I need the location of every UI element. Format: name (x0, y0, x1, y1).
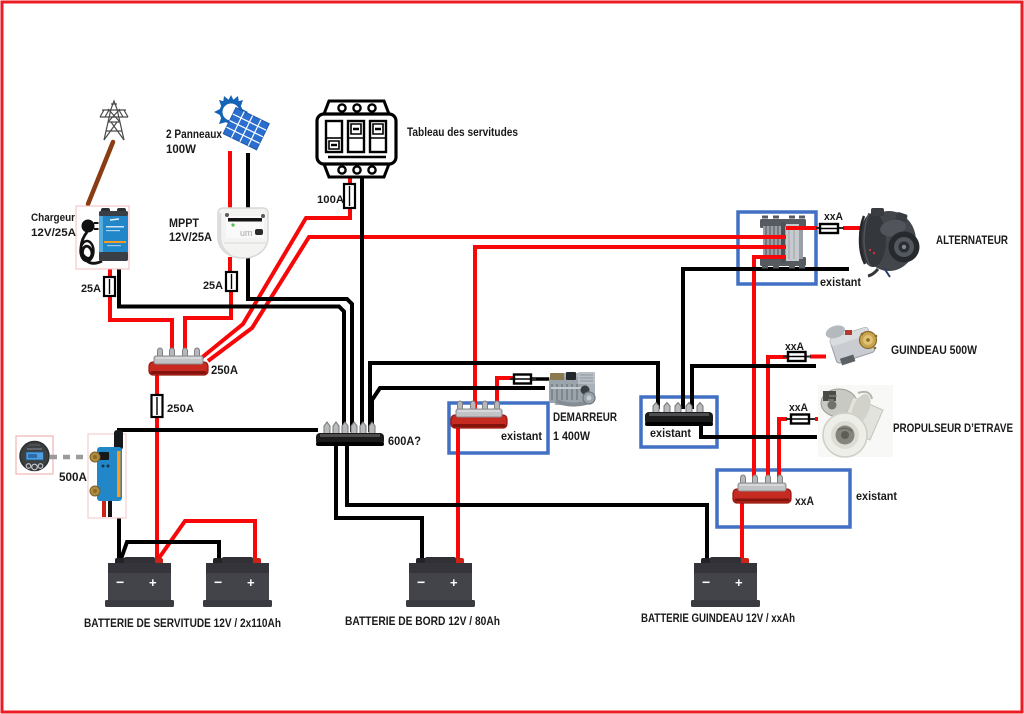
wire: tableau positive via 100A fuse to 250A bus (200, 176, 350, 359)
wire: MPPT positive to 25A fuse to 250A bus (185, 257, 231, 362)
wire: guindeau bus to batterie guindeau positive (740, 502, 744, 560)
alternator isolator device (760, 217, 806, 267)
svg-text:12V/25A: 12V/25A (169, 232, 212, 244)
wire: red connections on isolator (754, 228, 817, 257)
chargeur plug and cable (82, 220, 95, 233)
svg-text:existant: existant (820, 277, 861, 289)
svg-text:12V/25A: 12V/25A (31, 227, 76, 239)
wire: solar panel positive to MPPT (228, 151, 232, 212)
svg-text:+: + (735, 575, 743, 590)
demarreur engine (549, 372, 595, 405)
blue box: guindeau bus bar (existant) (717, 470, 850, 527)
dashed link gauge to shunt (50, 455, 92, 460)
wire: 600A bus to black existant bus (370, 363, 658, 432)
wire: isolator to guindeau bus (754, 257, 767, 494)
svg-text:+: + (247, 575, 255, 590)
svg-text:500A: 500A (59, 472, 87, 484)
wire: charger positive to 25A fuse to 250A bus (110, 258, 172, 362)
wire: solar panel negative to MPPT (246, 153, 250, 212)
svg-text:BATTERIE DE SERVITUDE 12V / 2x: BATTERIE DE SERVITUDE 12V / 2x110Ah (84, 618, 281, 630)
svg-text:1 400W: 1 400W (553, 431, 590, 443)
tableau des servitudes breaker panel (317, 101, 396, 177)
solar sun (214, 95, 248, 129)
svg-text:xxA: xxA (785, 341, 804, 353)
wire: red existant bus to batterie de bord positive (456, 426, 460, 560)
wire: propulseur fuse to propulseur (815, 417, 827, 421)
batterie guindeau (691, 557, 760, 607)
svg-text:−: − (702, 574, 710, 590)
wire: propulseur return to black existant bus (701, 424, 817, 437)
wire: guindeau bus to propulseur xxA fuse (779, 419, 787, 494)
svg-text:ALTERNATEUR: ALTERNATEUR (936, 235, 1009, 247)
wire: 600A bus to batterie de bord negative (336, 444, 422, 560)
alternateur (860, 208, 920, 277)
red existant bus bar (bord) (451, 401, 507, 428)
svg-text:25A: 25A (203, 280, 223, 292)
svg-text:25A: 25A (81, 283, 101, 295)
svg-text:250A: 250A (167, 403, 194, 415)
svg-text:100W: 100W (166, 144, 196, 156)
fuse 250A (152, 395, 163, 417)
fuse 100A (344, 184, 355, 208)
wire: charger negative to 600A bus (119, 259, 344, 432)
wire: jumper batterie servitude positive (159, 521, 255, 560)
fuse xxA guindeau (783, 352, 811, 361)
wire: alternator isolator to red existant bus bord (475, 247, 767, 416)
svg-text:xxA: xxA (795, 496, 814, 508)
wire: alternator ground to black existant bus (683, 269, 849, 409)
svg-text:BATTERIE GUINDEAU 12V / xxAh: BATTERIE GUINDEAU 12V / xxAh (641, 613, 795, 625)
fuse xxA alternator (816, 224, 844, 233)
svg-text:existant: existant (501, 431, 542, 443)
svg-text:−: − (214, 574, 222, 590)
svg-text:100A: 100A (317, 194, 344, 206)
wire: 600A bus to demarreur engine ground (372, 388, 545, 432)
wire: xxA fuse to alternateur (843, 226, 862, 230)
wire: red existant bus to demarreur fuse (497, 378, 514, 414)
blue box: red bus bar bord (existant) (449, 403, 548, 453)
wire: tableau negative to 600A bus (360, 176, 364, 432)
svg-text:Chargeur: Chargeur (31, 212, 76, 224)
smart shunt blue device (88, 430, 126, 518)
batterie servitude 2 (203, 557, 272, 607)
chargeur blue unit (101, 208, 110, 213)
black existant bus bar (645, 403, 713, 426)
wire: alternator isolator to 250A bus (208, 237, 765, 361)
svg-text:600A?: 600A? (388, 434, 421, 448)
wire: guindeau return to black existant bus (692, 366, 816, 409)
svg-text:DEMARREUR: DEMARREUR (553, 412, 618, 424)
chargeur box (76, 206, 129, 269)
propulseur d'etrave (818, 385, 893, 457)
fuse xxA propulseur (786, 415, 815, 424)
wire: demarreur fuse to engine (530, 377, 549, 381)
svg-text:250A: 250A (211, 365, 238, 377)
blue box: alternator isolator (existant) (738, 212, 816, 284)
wire: jumper batterie servitude negative (121, 542, 219, 560)
wire: shunt to 600A bus (119, 430, 318, 437)
svg-text:Tableau des servitudes: Tableau des servitudes (407, 127, 518, 139)
wire: guindeau bus to guindeau xxA fuse (768, 357, 790, 494)
svg-text:xxA: xxA (789, 402, 808, 414)
batterie servitude 1 (105, 557, 174, 607)
solar panel 2x100W (223, 108, 269, 150)
wire: MPPT negative to 600A bus (248, 257, 352, 432)
guindeau motor (824, 316, 877, 367)
svg-text:+: + (450, 575, 458, 590)
svg-text:−: − (417, 574, 425, 590)
pylon (electric tower) (100, 101, 128, 140)
wire: guindeau fuse to guindeau motor (810, 355, 826, 359)
svg-text:2 Panneaux: 2 Panneaux (166, 129, 223, 141)
svg-text:xxA: xxA (824, 211, 843, 223)
svg-text:MPPT: MPPT (169, 218, 199, 230)
demarreur fuse xxA (510, 375, 536, 384)
svg-text:um: um (240, 228, 253, 238)
svg-text:existant: existant (856, 491, 897, 503)
bus bar 600A (316, 422, 384, 445)
fuse 25A chargeur (104, 277, 115, 296)
svg-text:−: − (116, 574, 124, 590)
bus bar 250A (149, 348, 208, 375)
svg-text:GUINDEAU 500W: GUINDEAU 500W (891, 345, 977, 357)
battery monitor 500A gauge (16, 436, 53, 474)
svg-text:existant: existant (650, 428, 691, 440)
batterie de bord (406, 557, 475, 607)
wire: shunt to batterie servitude 1 negative (117, 500, 121, 560)
blue box: black bus bar (existant) (641, 397, 717, 447)
svg-text:+: + (149, 575, 157, 590)
brown wire from pylon to chargeur (88, 142, 113, 204)
svg-text:PROPULSEUR D’ETRAVE: PROPULSEUR D’ETRAVE (893, 423, 1013, 435)
wire: 600A bus to batterie guindeau negative (347, 444, 707, 560)
guindeau red bus bar (733, 475, 791, 503)
MPPT regulator (218, 208, 268, 258)
svg-text:BATTERIE DE BORD 12V / 80Ah: BATTERIE DE BORD 12V / 80Ah (345, 616, 500, 628)
fuse 25A mppt (226, 272, 237, 291)
wire: 250A bus to 250A fuse to batterie servitude 1 positive (155, 375, 159, 560)
